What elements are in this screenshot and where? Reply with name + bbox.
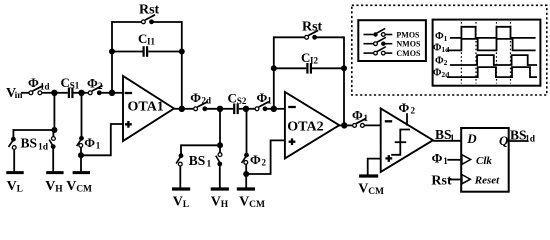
svg-text:V: V — [66, 179, 76, 194]
label Φ2 — [250, 152, 267, 168]
svg-text:1d: 1d — [38, 143, 49, 153]
ground VL2 — [172, 187, 190, 190]
svg-text:V: V — [45, 179, 55, 194]
waveform Φ2d trace — [447, 67, 537, 77]
label Q output — [499, 133, 509, 148]
label CMOS — [396, 49, 421, 58]
svg-text:Rst: Rst — [302, 20, 323, 35]
wire to OTA1 - input — [112, 92, 124, 94]
node OTA2 output junction — [341, 122, 347, 128]
wire OTA2 output — [339, 124, 345, 126]
svg-text:I2: I2 — [310, 56, 319, 66]
comparator hysteresis symbol — [391, 130, 410, 155]
capacitor CS2 — [234, 104, 246, 115]
svg-text:S1: S1 — [70, 80, 80, 90]
ground VL — [6, 171, 23, 174]
switch Rst1 (NMOS reset) — [142, 15, 156, 24]
svg-text:Φ: Φ — [257, 90, 268, 105]
label VCM2 — [239, 195, 265, 211]
wire feedback top right segment — [152, 21, 182, 23]
switch S1 (CMOS, clock Φ1d) — [29, 86, 43, 95]
label Φ1 — [257, 90, 273, 106]
wire feedback2 left vertical — [273, 36, 275, 108]
svg-text:1: 1 — [443, 156, 448, 166]
label PMOS — [396, 30, 420, 39]
switch BS1d to VH (NMOS) — [49, 130, 55, 172]
legend outer dashed box — [352, 5, 547, 95]
legend switch-type box — [358, 20, 426, 61]
label BS1 comparator output — [435, 127, 455, 144]
ground VCM — [73, 171, 90, 174]
svg-text:1: 1 — [207, 160, 212, 170]
svg-text:PMOS: PMOS — [396, 30, 420, 39]
op-amp OTA2 — [285, 92, 339, 158]
switch S3 vertical (clock Φ1) to VCM — [77, 136, 84, 172]
svg-text:S2: S2 — [237, 96, 247, 106]
svg-text:C: C — [301, 50, 310, 65]
comparator U3 — [381, 108, 433, 171]
wire node Z down to BS branch — [219, 109, 221, 146]
wire OTA1 output — [174, 108, 183, 110]
wire comparator output to D input — [433, 140, 461, 142]
svg-text:1: 1 — [96, 141, 101, 151]
wire node A down to BS branch — [53, 93, 55, 130]
svg-text:1d: 1d — [40, 81, 50, 91]
svg-text:Φ: Φ — [352, 108, 363, 123]
svg-text:V: V — [173, 195, 183, 209]
wire node W to switch Φ1 — [246, 108, 255, 110]
node A junction — [51, 90, 57, 96]
svg-text:Φ: Φ — [399, 100, 410, 115]
wire node A to CS1 — [54, 92, 67, 94]
legend PMOS switch symbol — [364, 28, 393, 36]
wire VCM2 tap to OTA2 + input — [246, 140, 285, 174]
capacitor CI2 — [274, 63, 344, 74]
svg-text:I1: I1 — [147, 37, 156, 47]
node VCM tap junction — [78, 152, 84, 158]
label VL2 — [173, 195, 189, 211]
legend CMOS switch symbol — [364, 47, 393, 55]
node at OTA1 inverting input — [109, 90, 115, 96]
wire node X to switch Φ2 — [82, 92, 88, 94]
node OTA1 output junction — [179, 106, 185, 112]
svg-text:Clk: Clk — [476, 155, 492, 167]
svg-text:D: D — [466, 131, 477, 146]
label CI1 — [138, 31, 156, 47]
label Φ1 — [84, 135, 101, 151]
label Φ2d waveform — [433, 67, 450, 79]
wire node X down to sampling switch — [81, 93, 83, 136]
svg-text:CM: CM — [368, 187, 384, 197]
node CI1 right junction — [179, 49, 185, 55]
label CS1 — [61, 75, 80, 91]
svg-text:CM: CM — [76, 185, 92, 195]
node BS1 branch junction — [217, 142, 223, 148]
wire VCM tap to OTA1 + input — [81, 124, 124, 155]
label Φ2 waveform — [435, 56, 448, 68]
label Φ2d — [190, 90, 211, 106]
label NMOS — [396, 40, 421, 49]
svg-text:L: L — [17, 185, 23, 195]
node X junction — [78, 90, 84, 96]
label BS1 — [189, 153, 212, 170]
wire feedback2 right vertical — [343, 36, 345, 125]
label D input — [466, 131, 477, 146]
legend NMOS switch symbol — [364, 37, 393, 46]
label Rst input — [431, 174, 452, 189]
svg-text:OTA2: OTA2 — [287, 119, 323, 134]
svg-text:V: V — [211, 195, 221, 209]
svg-text:Q: Q — [499, 133, 509, 148]
svg-text:Φ: Φ — [250, 152, 261, 167]
svg-text:2: 2 — [98, 81, 103, 91]
ground VH — [46, 171, 63, 174]
wire BS branch horizontal — [181, 144, 220, 153]
wire feedback top left segment — [112, 21, 141, 23]
node CI2 left junction — [271, 65, 277, 71]
flip-flop Reset edge triangle — [462, 175, 470, 184]
svg-text:Φ: Φ — [28, 75, 39, 90]
svg-text:OTA1: OTA1 — [128, 100, 164, 115]
svg-text:H: H — [55, 185, 63, 195]
label Φ1 clk — [432, 150, 449, 166]
ground VH2 — [211, 187, 229, 190]
svg-text:1: 1 — [267, 95, 272, 105]
svg-text:C: C — [228, 90, 237, 105]
label VCM — [66, 179, 92, 195]
wire Vin to switch — [21, 92, 29, 94]
switch S4 (NMOS, clock Φ2d) — [194, 102, 221, 112]
switch BS1 to VH (NMOS) — [216, 145, 222, 187]
switch Rst2 (NMOS reset) — [305, 30, 319, 39]
svg-text:Φ: Φ — [190, 90, 201, 105]
switch S5 (NMOS, clock Φ1) — [255, 102, 274, 112]
op-amp OTA1 — [123, 76, 174, 141]
ground VCM2 — [237, 187, 255, 190]
node Vin input label — [6, 86, 23, 101]
node at OTA2 inverting input — [271, 106, 277, 112]
wire Rst to Reset — [450, 179, 461, 181]
label Φ1d — [28, 75, 50, 91]
svg-text:2d: 2d — [202, 95, 212, 105]
label BS1d output — [510, 128, 536, 145]
svg-text:2: 2 — [262, 158, 267, 168]
svg-text:1: 1 — [450, 134, 455, 144]
wire BS branch horizontal — [13, 129, 54, 137]
label Φ2 comparator clock — [399, 100, 416, 116]
svg-text:V: V — [239, 195, 249, 209]
wire OTA1 output to switch Φ2d — [182, 108, 194, 110]
svg-text:1d: 1d — [525, 134, 536, 144]
label Φ1 comparator input — [352, 108, 369, 124]
svg-text:Φ: Φ — [432, 150, 443, 165]
wire feedback left vertical — [111, 21, 113, 93]
node Z junction — [217, 106, 223, 112]
svg-text:1: 1 — [444, 34, 448, 43]
svg-text:NMOS: NMOS — [396, 40, 421, 49]
wire feedback2 top right segment — [315, 36, 344, 38]
node W junction — [243, 106, 249, 112]
svg-text:Rst: Rst — [139, 2, 160, 17]
label Φ1d waveform — [433, 43, 450, 55]
wire node W down to sampling switch — [246, 109, 248, 153]
label VH2 — [211, 195, 229, 211]
svg-text:Φ: Φ — [87, 75, 98, 90]
svg-text:C: C — [61, 75, 70, 90]
node VCM2 tap junction — [243, 171, 249, 177]
wire node Z to CS2 — [220, 108, 233, 110]
wire Φ1 to Clk — [447, 159, 461, 161]
waveform timing dashed guides — [461, 22, 510, 84]
label VL — [7, 179, 23, 195]
wire switch to node A — [42, 92, 56, 94]
svg-text:Rst: Rst — [431, 174, 452, 189]
svg-text:Φ: Φ — [84, 135, 95, 150]
flip-flop Clk edge triangle — [462, 155, 471, 165]
svg-text:CM: CM — [249, 200, 265, 209]
svg-text:2: 2 — [444, 58, 448, 67]
svg-text:C: C — [138, 31, 147, 46]
svg-text:L: L — [183, 200, 189, 209]
waveform Φ2 trace — [450, 55, 537, 65]
label VH — [45, 179, 63, 195]
capacitor CS1 — [69, 88, 82, 99]
svg-text:BS: BS — [21, 136, 38, 151]
wire comparator + input to VCM — [368, 159, 382, 175]
wire to OTA2 - input — [274, 108, 286, 110]
node CI1 left junction — [109, 49, 115, 55]
switch S7 (CMOS, clock Φ1) comparator input — [344, 118, 381, 127]
capacitor CI1 — [112, 46, 182, 57]
wire feedback right vertical — [181, 21, 183, 109]
label VCM3 — [358, 182, 384, 198]
label Rst2 — [302, 20, 323, 35]
legend waveform box — [433, 20, 541, 86]
node BS1d branch junction — [51, 127, 57, 133]
label CI2 — [301, 50, 319, 66]
waveform Φ1 trace — [450, 27, 536, 38]
switch BS1d to VL (PMOS) — [9, 137, 17, 172]
label Φ2 — [87, 75, 103, 90]
label CS2 — [228, 90, 247, 106]
wire comparator clock Φ2 — [406, 113, 408, 125]
label Clk — [476, 155, 492, 167]
svg-text:1: 1 — [364, 113, 369, 123]
svg-text:V: V — [7, 179, 17, 194]
svg-text:BS: BS — [189, 153, 206, 168]
waveform Φ1d trace — [447, 39, 536, 51]
wire Q output — [508, 140, 528, 142]
switch S6 vertical (clock Φ2) to VCM — [242, 153, 249, 188]
label Reset — [474, 175, 500, 187]
switch S2 (NMOS, clock Φ2) — [88, 86, 112, 96]
node CI2 right junction — [341, 65, 347, 71]
svg-text:V: V — [358, 182, 368, 197]
label BS1d — [21, 136, 49, 153]
label Φ1 waveform — [435, 31, 448, 43]
svg-text:2: 2 — [411, 106, 416, 116]
ground VCM3 — [359, 174, 378, 177]
svg-text:H: H — [221, 200, 229, 209]
svg-text:CMOS: CMOS — [396, 49, 421, 58]
wire feedback2 top left segment — [274, 36, 305, 38]
svg-text:Reset: Reset — [474, 175, 500, 187]
label Rst — [139, 2, 160, 17]
flip-flop U4 box — [461, 128, 509, 192]
switch BS1 to VL (PMOS) — [176, 153, 183, 187]
